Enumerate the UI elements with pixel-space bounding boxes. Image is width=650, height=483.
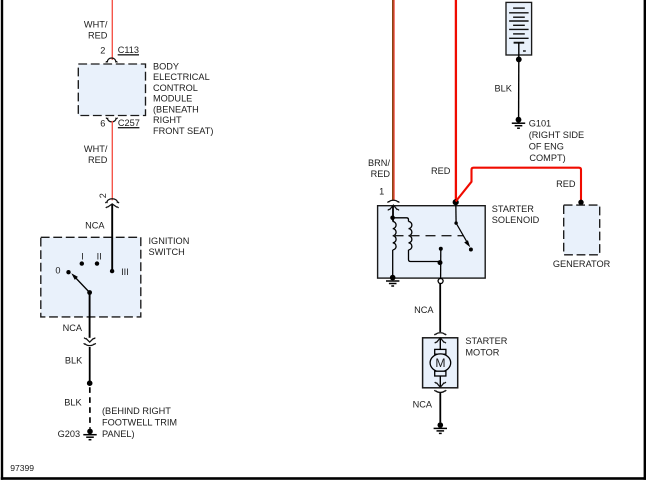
motor brush (top) (435, 349, 446, 354)
wire WHT/RED C257 to inline connector (111, 121, 113, 200)
ground G101 (516, 117, 522, 123)
switch pivot dot (454, 221, 457, 224)
lower inline connector (male half) (84, 338, 95, 343)
svg-text:WHT/: WHT/ (84, 144, 108, 154)
wire NCA solenoid to starter motor (439, 284, 441, 332)
switch feed wire (455, 202, 457, 223)
wire RED battery feed to solenoid (455, 0, 457, 201)
inline connector symbol (female half) (106, 199, 119, 203)
svg-text:BLK: BLK (495, 83, 513, 93)
body electrical control module U1 (78, 64, 145, 116)
wire contact to junction (440, 249, 442, 278)
svg-text:RIGHT: RIGHT (153, 115, 182, 125)
node: solenoid battery stud (453, 199, 459, 205)
wire BLK to splice (89, 347, 91, 383)
switch arm pivot (87, 290, 92, 295)
svg-text:NCA: NCA (85, 220, 105, 230)
connector C257 symbol (106, 118, 117, 122)
motor bottom connector (male half) (435, 382, 446, 387)
svg-text:MOTOR: MOTOR (465, 348, 499, 358)
svg-text:G203: G203 (58, 429, 80, 439)
svg-text:SWITCH: SWITCH (149, 247, 185, 257)
linkage (dashed) (394, 235, 464, 237)
svg-text:ELECTRICAL: ELECTRICAL (153, 72, 210, 82)
svg-text:(BENEATH: (BENEATH (153, 104, 199, 114)
generator G1 (564, 205, 600, 255)
solenoid input wire (392, 206, 394, 222)
wire NCA motor to ground (439, 393, 441, 423)
wire hold-in coil to case ground (392, 250, 394, 278)
svg-text:FRONT SEAT): FRONT SEAT) (153, 126, 213, 136)
contact 0 (66, 270, 70, 274)
svg-text:IGNITION: IGNITION (149, 236, 190, 246)
motor brush (bottom) (435, 371, 446, 376)
svg-text:2: 2 (98, 193, 108, 198)
battery B1 (506, 2, 532, 55)
svg-text:FOOTWELL TRIM: FOOTWELL TRIM (102, 417, 177, 427)
wire pivot to lower connector (89, 293, 91, 338)
svg-text:MODULE: MODULE (153, 94, 192, 104)
motor ground wire (439, 376, 441, 387)
solenoid entry connector (female half) (388, 200, 400, 202)
svg-text:NCA: NCA (63, 323, 83, 333)
svg-text:RED: RED (88, 155, 108, 165)
motor top connector (male half) (435, 338, 446, 343)
starter motor box (423, 338, 458, 388)
wire BLK battery to G101 (518, 59, 520, 117)
svg-text:G101: G101 (529, 119, 551, 129)
svg-text:NCA: NCA (414, 305, 434, 315)
svg-text:BLK: BLK (65, 356, 83, 366)
svg-text:SOLENOID: SOLENOID (492, 215, 540, 225)
svg-text:GENERATOR: GENERATOR (553, 259, 611, 269)
svg-text:STARTER: STARTER (492, 204, 534, 214)
motor top connector (female half) (435, 333, 447, 335)
svg-text:PANEL): PANEL) (102, 429, 135, 439)
svg-text:C113: C113 (118, 45, 139, 55)
wire WHT/RED fuse feed to C113 (111, 0, 113, 60)
svg-text:RED: RED (431, 166, 451, 176)
node: coil feed junction (390, 216, 395, 221)
svg-text:STARTER: STARTER (465, 336, 507, 346)
contact III (110, 269, 114, 273)
svg-text:0: 0 (55, 265, 60, 275)
svg-text:III: III (121, 267, 129, 277)
battery negative terminal wire (518, 43, 520, 57)
svg-text:BLK: BLK (64, 398, 82, 408)
ignition switch S1 (41, 237, 141, 317)
jumper to pull-in coil (393, 218, 409, 222)
motor armature M (430, 354, 451, 372)
wire NCA to ignition switch (111, 205, 113, 271)
coil L2 (pull-in) (409, 222, 412, 250)
fixed contact (right) (469, 248, 473, 252)
connector C113 symbol (106, 58, 117, 63)
ground G203 (87, 429, 93, 435)
svg-text:RED: RED (371, 169, 391, 179)
coil L1 (hold-in) (393, 222, 396, 250)
svg-text:1: 1 (379, 186, 384, 196)
inline connector symbol (male half) (106, 204, 119, 208)
svg-text:2: 2 (100, 45, 105, 55)
wire BLK dashed to G203 (89, 387, 91, 428)
svg-text:COMPT): COMPT) (529, 153, 565, 163)
svg-text:NCA: NCA (413, 400, 433, 410)
motor ground (438, 422, 444, 428)
svg-text:WHT/: WHT/ (84, 20, 108, 30)
switch arm (76, 278, 90, 293)
starter solenoid box (378, 206, 486, 278)
solenoid motor terminal (open circle) (438, 279, 443, 284)
splice dot (87, 380, 93, 386)
svg-text:M: M (435, 356, 445, 370)
switch arm with arrowhead (456, 223, 466, 241)
svg-text:CONTROL: CONTROL (153, 83, 198, 93)
svg-text:C257: C257 (118, 118, 140, 128)
node: generator stud (578, 200, 583, 205)
svg-text:RED: RED (88, 30, 108, 40)
wire BRN/RED feed to starter solenoid (392, 0, 394, 200)
contact II (95, 261, 99, 265)
svg-text:OF ENG: OF ENG (529, 142, 564, 152)
lower inline connector (female half) (84, 343, 96, 346)
svg-text:RED: RED (556, 179, 576, 189)
node: motor terminal junction (438, 260, 443, 265)
fixed contact (motor side) (439, 247, 443, 251)
svg-text:(RIGHT SIDE: (RIGHT SIDE (529, 130, 584, 140)
solenoid case ground (390, 275, 396, 281)
svg-text:BODY: BODY (153, 61, 179, 71)
svg-text:(BEHIND RIGHT: (BEHIND RIGHT (102, 406, 171, 416)
svg-text:97399: 97399 (10, 463, 34, 473)
svg-text:6: 6 (100, 119, 105, 129)
motor feed wire (439, 339, 441, 350)
contact I (80, 261, 84, 265)
svg-text:I: I (81, 251, 84, 261)
svg-text:II: II (97, 251, 102, 261)
motor bottom connector (female half) (435, 390, 447, 392)
svg-text:BRN/: BRN/ (368, 158, 390, 168)
solenoid entry connector (male half) (388, 205, 399, 210)
wire RED solenoid to generator (456, 168, 581, 202)
wire pull-in coil to motor terminal (409, 250, 440, 262)
